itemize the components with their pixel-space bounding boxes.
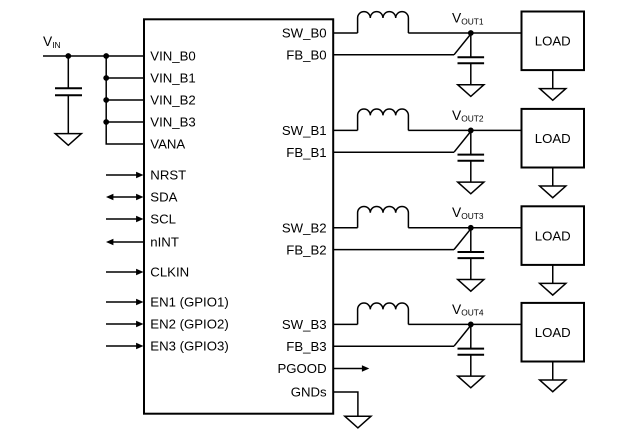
ground LOAD4 (540, 380, 566, 392)
ground COUT2 (458, 182, 484, 194)
wire SW_B0 stub (333, 32, 357, 34)
load block LOAD4 (522, 303, 585, 362)
ground LOAD3 (540, 283, 566, 295)
wire FB_B3 diagonal to VOUT4 (454, 325, 471, 346)
wire FB_B2 (333, 249, 454, 251)
svg-text:VOUT3: VOUT3 (452, 205, 484, 221)
ground LOAD1 (540, 89, 566, 101)
svg-text:SW_B1: SW_B1 (282, 123, 327, 138)
junction VIN_B3 (103, 119, 109, 125)
svg-text:PGOOD: PGOOD (278, 361, 327, 376)
svg-text:SW_B0: SW_B0 (282, 26, 327, 41)
svg-text:LOAD: LOAD (535, 34, 571, 49)
pin EN1 arrow (106, 299, 144, 306)
wire FB_B2 diagonal to VOUT3 (454, 229, 471, 250)
pin SDA arrow (106, 194, 144, 201)
node VOUT3 junction (468, 225, 474, 231)
svg-text:SW_B2: SW_B2 (282, 221, 327, 236)
pin EN3 arrow (106, 343, 144, 350)
wire LOAD2 to ground (552, 168, 554, 187)
wire LOAD4 to ground (552, 362, 554, 381)
svg-text:EN1 (GPIO1): EN1 (GPIO1) (150, 295, 228, 310)
pin nINT arrow (106, 239, 144, 246)
wire L2 to LOAD2 (408, 129, 521, 131)
pin NRST arrow (106, 172, 144, 179)
svg-text:LOAD: LOAD (535, 325, 571, 340)
svg-text:VANA: VANA (150, 137, 185, 152)
capacitor COUT2 (458, 130, 485, 182)
svg-text:CLKIN: CLKIN (150, 265, 189, 280)
svg-text:EN2 (GPIO2): EN2 (GPIO2) (150, 317, 228, 332)
capacitor COUT3 (458, 228, 485, 280)
load block LOAD3 (522, 206, 585, 265)
svg-text:VIN: VIN (43, 34, 61, 50)
svg-text:VIN_B2: VIN_B2 (150, 93, 195, 108)
junction VIN at CIN (65, 53, 71, 59)
svg-text:SW_B3: SW_B3 (282, 317, 327, 332)
svg-text:FB_B1: FB_B1 (286, 145, 326, 160)
wire L3 to LOAD3 (408, 227, 521, 229)
wire VIN bus vertical (106, 56, 144, 144)
ground COUT1 (458, 85, 484, 97)
pin PGOOD arrow (333, 365, 369, 372)
wire L4 to LOAD4 (408, 323, 521, 325)
ground CIN (55, 134, 81, 146)
svg-text:VIN_B1: VIN_B1 (150, 71, 195, 86)
load block LOAD2 (522, 109, 585, 168)
svg-text:nINT: nINT (150, 235, 179, 250)
wire GNDs (333, 392, 358, 416)
pin EN2 arrow (106, 321, 144, 328)
wire SW_B2 stub (333, 227, 357, 229)
svg-text:VOUT2: VOUT2 (452, 108, 484, 124)
junction VIN_B1 (103, 75, 109, 81)
ground COUT3 (458, 280, 484, 292)
svg-text:VOUT4: VOUT4 (452, 302, 484, 318)
capacitor COUT4 (458, 324, 485, 376)
wire SW_B1 stub (333, 129, 357, 131)
svg-text:FB_B0: FB_B0 (286, 48, 326, 63)
junction VIN at bus (103, 53, 109, 59)
svg-text:FB_B2: FB_B2 (286, 242, 326, 257)
svg-text:VIN_B3: VIN_B3 (150, 115, 195, 130)
wire VIN_B1 (106, 77, 144, 79)
IC U1 quad buck converter (144, 19, 333, 413)
svg-text:FB_B3: FB_B3 (286, 339, 326, 354)
pin SCL arrow (106, 216, 144, 223)
svg-text:NRST: NRST (150, 168, 186, 183)
svg-text:VOUT1: VOUT1 (452, 10, 484, 26)
wire L1 to LOAD1 (408, 32, 521, 34)
junction VIN_B2 (103, 97, 109, 103)
svg-text:LOAD: LOAD (535, 228, 571, 243)
ground LOAD2 (540, 186, 566, 198)
wire SW_B3 stub (333, 323, 357, 325)
inductor L3 (358, 206, 409, 227)
svg-text:LOAD: LOAD (535, 131, 571, 146)
inductor L2 (358, 109, 409, 130)
node VOUT2 junction (468, 127, 474, 133)
wire FB_B1 (333, 151, 454, 153)
wire VIN (43, 55, 144, 57)
wire VIN_B3 (106, 121, 144, 123)
node VOUT1 junction (468, 30, 474, 36)
pin CLKIN arrow (106, 269, 144, 276)
inductor L1 (358, 12, 409, 33)
wire FB_B3 (333, 345, 454, 347)
svg-text:GNDs: GNDs (291, 385, 327, 400)
wire VIN_B2 (106, 99, 144, 101)
svg-text:SDA: SDA (150, 190, 177, 205)
svg-text:VIN_B0: VIN_B0 (150, 49, 195, 64)
ground COUT4 (458, 376, 484, 388)
wire FB_B0 (333, 54, 454, 56)
wire FB_B1 diagonal to VOUT2 (454, 131, 471, 152)
svg-text:SCL: SCL (150, 212, 176, 227)
capacitor CIN (55, 56, 82, 134)
wire LOAD1 to ground (552, 70, 554, 89)
wire LOAD3 to ground (552, 265, 554, 284)
ground GNDs (345, 416, 371, 428)
svg-text:EN3 (GPIO3): EN3 (GPIO3) (150, 339, 228, 354)
node VOUT4 junction (468, 322, 474, 328)
capacitor COUT1 (458, 33, 485, 85)
inductor L4 (358, 303, 409, 324)
load block LOAD1 (522, 12, 585, 71)
wire FB_B0 diagonal to VOUT1 (454, 34, 471, 55)
